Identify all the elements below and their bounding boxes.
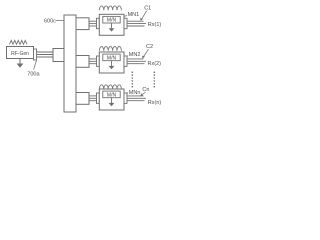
svg-text:Rx(2): Rx(2) xyxy=(148,61,162,67)
label C2 with arrow to cable xyxy=(142,44,153,59)
connector at MN1 input xyxy=(97,18,100,28)
label C1 with arrow to cable xyxy=(140,6,151,21)
ground arrow inside MNn xyxy=(109,98,115,107)
svg-text:Rx(n): Rx(n) xyxy=(148,100,162,106)
connector block on splitter, row 3 xyxy=(76,93,89,105)
svg-text:M/N: M/N xyxy=(107,92,117,98)
label 600c with leader xyxy=(44,18,64,24)
M/N box row 1 xyxy=(103,16,120,23)
cable splitter to MN2 (3 conductors) xyxy=(89,59,97,64)
squiggle above RF-Gen xyxy=(10,40,28,44)
connector at RF-Gen output xyxy=(34,49,37,60)
label Cn with arrow to cable xyxy=(140,87,149,96)
connector at MNn output xyxy=(124,93,127,103)
cable MNn to Rx(n) (3 conductors) xyxy=(127,96,146,101)
matching network MN1 enclosure xyxy=(99,14,124,35)
cable MN1 to Rx(1) (3 conductors) xyxy=(127,21,146,26)
svg-text:MN2: MN2 xyxy=(129,52,141,58)
connector at MN2 input xyxy=(97,56,100,66)
cable splitter to MN1 (3 conductors) xyxy=(89,21,97,26)
cable MN2 to Rx(2) (3 conductors) xyxy=(127,59,146,64)
connector block at splitter input xyxy=(53,49,64,62)
connector at MN2 output xyxy=(124,56,127,66)
svg-text:M/N: M/N xyxy=(107,55,117,61)
M/N box row 3 xyxy=(103,91,120,98)
label MNn with leader xyxy=(125,90,141,96)
connector block on splitter, row 1 xyxy=(76,18,89,30)
svg-text:RF-Gen: RF-Gen xyxy=(11,51,29,57)
svg-text:MNn: MNn xyxy=(129,90,141,96)
svg-text:C1: C1 xyxy=(144,6,151,12)
svg-text:600c: 600c xyxy=(44,18,56,24)
svg-text:700a: 700a xyxy=(27,71,40,77)
label MN1 with leader xyxy=(124,12,140,18)
M/N box row 2 xyxy=(103,54,120,61)
connector block on splitter, row 2 xyxy=(76,56,89,68)
ground arrow inside MN2 xyxy=(109,61,115,70)
ellipsis dots column above MNn xyxy=(132,71,134,87)
connector at MN1 output xyxy=(124,18,127,28)
squiggle above MNn xyxy=(99,85,121,89)
connector at MNn input xyxy=(97,93,100,103)
cable from RF-Gen to splitter (3 conductors) xyxy=(37,52,54,57)
matching network MN2 enclosure xyxy=(99,52,124,73)
svg-text:Rx(1): Rx(1) xyxy=(148,22,162,28)
svg-text:C2: C2 xyxy=(146,44,153,50)
svg-text:Cn: Cn xyxy=(142,87,149,93)
ground arrow inside MN1 xyxy=(109,23,115,32)
splitter 600c xyxy=(64,15,76,112)
RF generator RF-Gen xyxy=(7,47,34,59)
ellipsis dots column above Rx(n) xyxy=(154,71,156,87)
squiggle above MN2 xyxy=(99,47,121,51)
svg-text:MN1: MN1 xyxy=(128,12,140,18)
svg-text:M/N: M/N xyxy=(107,18,117,24)
squiggle above MN1 xyxy=(99,6,121,10)
label MN2 with leader xyxy=(125,52,141,58)
ground arrow below RF-Gen xyxy=(17,59,24,68)
label 700a with leader to cable xyxy=(27,61,40,78)
matching network MNn enclosure xyxy=(99,89,124,110)
cable splitter to MNn (3 conductors) xyxy=(89,96,97,101)
